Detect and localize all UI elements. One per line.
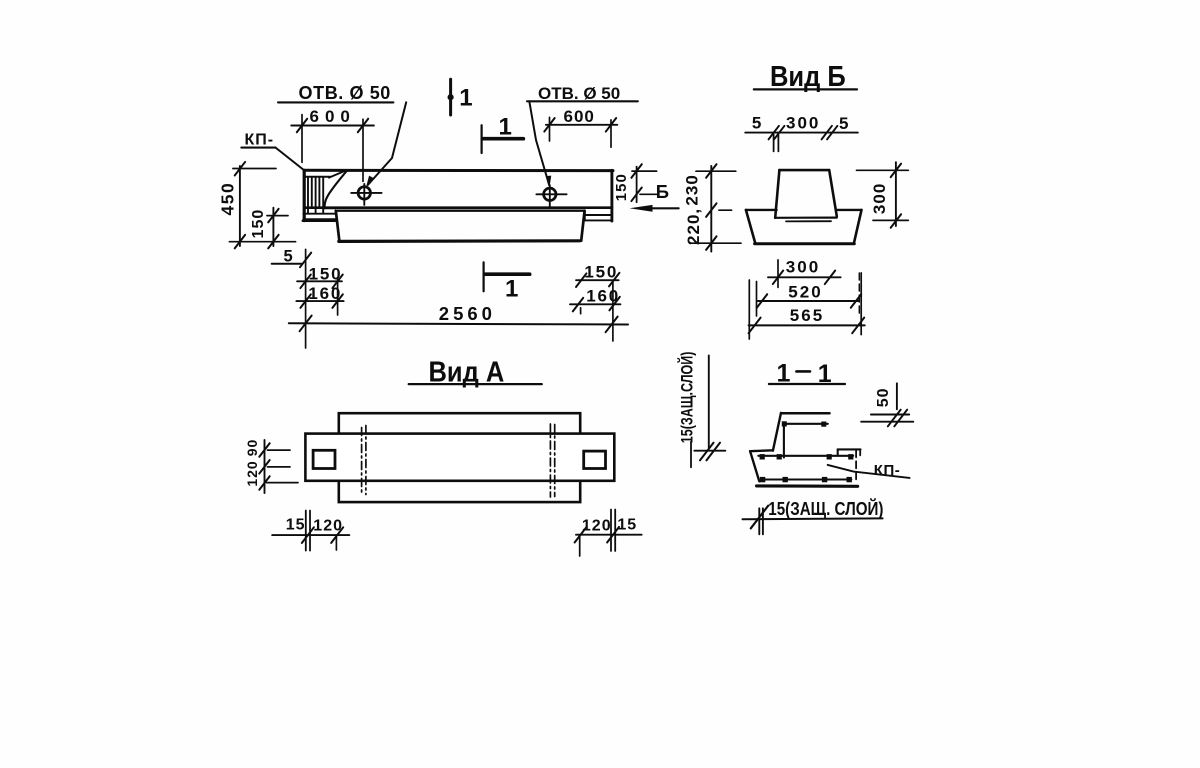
svg-text:120: 120 bbox=[582, 517, 612, 534]
svg-text:15: 15 bbox=[617, 516, 637, 533]
svg-text:300: 300 bbox=[870, 183, 889, 214]
svg-text:120: 120 bbox=[244, 460, 260, 486]
svg-text:5: 5 bbox=[752, 113, 761, 132]
svg-text:230: 230 bbox=[683, 174, 702, 205]
svg-text:1: 1 bbox=[499, 113, 512, 140]
svg-text:1: 1 bbox=[459, 85, 472, 112]
svg-text:150: 150 bbox=[250, 209, 267, 239]
svg-text:220,: 220, bbox=[684, 208, 703, 245]
svg-text:ОТВ. Ø 50: ОТВ. Ø 50 bbox=[299, 83, 391, 103]
svg-text:2560: 2560 bbox=[439, 303, 496, 324]
svg-text:15(ЗАЩ.СЛОЙ): 15(ЗАЩ.СЛОЙ) bbox=[677, 351, 697, 443]
svg-text:Б: Б bbox=[656, 181, 669, 202]
svg-text:600: 600 bbox=[564, 107, 595, 126]
svg-text:КП-: КП- bbox=[245, 132, 275, 149]
svg-text:150: 150 bbox=[613, 173, 630, 201]
svg-text:Вид А: Вид А bbox=[429, 355, 505, 388]
svg-text:1: 1 bbox=[505, 275, 518, 302]
svg-text:5: 5 bbox=[839, 114, 848, 133]
svg-text:15(ЗАЩ. СЛОЙ): 15(ЗАЩ. СЛОЙ) bbox=[768, 498, 883, 519]
svg-text:90: 90 bbox=[244, 439, 260, 457]
svg-text:ОТВ. Ø 50: ОТВ. Ø 50 bbox=[538, 84, 620, 103]
svg-text:15: 15 bbox=[286, 516, 306, 533]
svg-text:50: 50 bbox=[875, 388, 892, 408]
svg-text:565: 565 bbox=[790, 306, 824, 325]
svg-text:300: 300 bbox=[786, 257, 820, 276]
svg-text:150: 150 bbox=[584, 263, 618, 282]
svg-text:450: 450 bbox=[218, 182, 238, 216]
svg-text:300: 300 bbox=[786, 113, 820, 132]
svg-text:520: 520 bbox=[788, 282, 822, 301]
svg-text:600: 600 bbox=[310, 107, 356, 126]
svg-text:Вид Б: Вид Б bbox=[770, 60, 846, 93]
